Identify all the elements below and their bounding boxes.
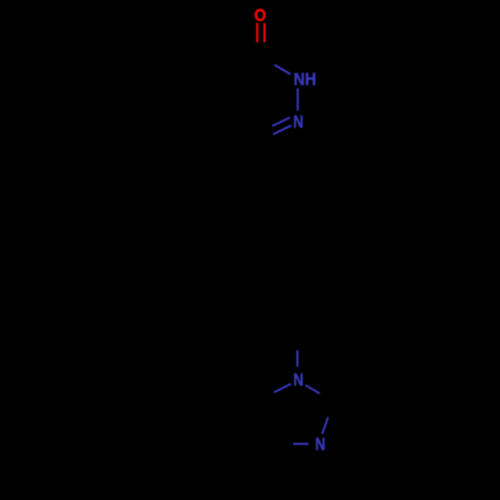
bond N1'-C5' (blue half) bbox=[274, 384, 291, 392]
svg-text:O: O bbox=[254, 5, 266, 25]
bond C2'-N3' (blue half near N3') bbox=[322, 417, 328, 434]
svg-text:NH: NH bbox=[294, 69, 317, 89]
bond N2-N1 (full blue) bbox=[297, 88, 299, 110]
bond N1'-C2' (blue half) bbox=[305, 385, 320, 393]
bond C3-N2 (blue half near NH) bbox=[275, 65, 291, 75]
bond N1=C6 double bond (blue halves near N1) bbox=[272, 118, 290, 126]
svg-text:N: N bbox=[293, 369, 303, 389]
bond chain CH2 to imidazole N1' (blue half near N) bbox=[296, 350, 298, 366]
svg-text:N: N bbox=[293, 112, 303, 132]
svg-text:N: N bbox=[315, 434, 325, 454]
bond N3'-C4' (blue half near N3') bbox=[293, 443, 309, 445]
bond C3=O double bond (red halves, C half invisible) bbox=[256, 23, 258, 42]
